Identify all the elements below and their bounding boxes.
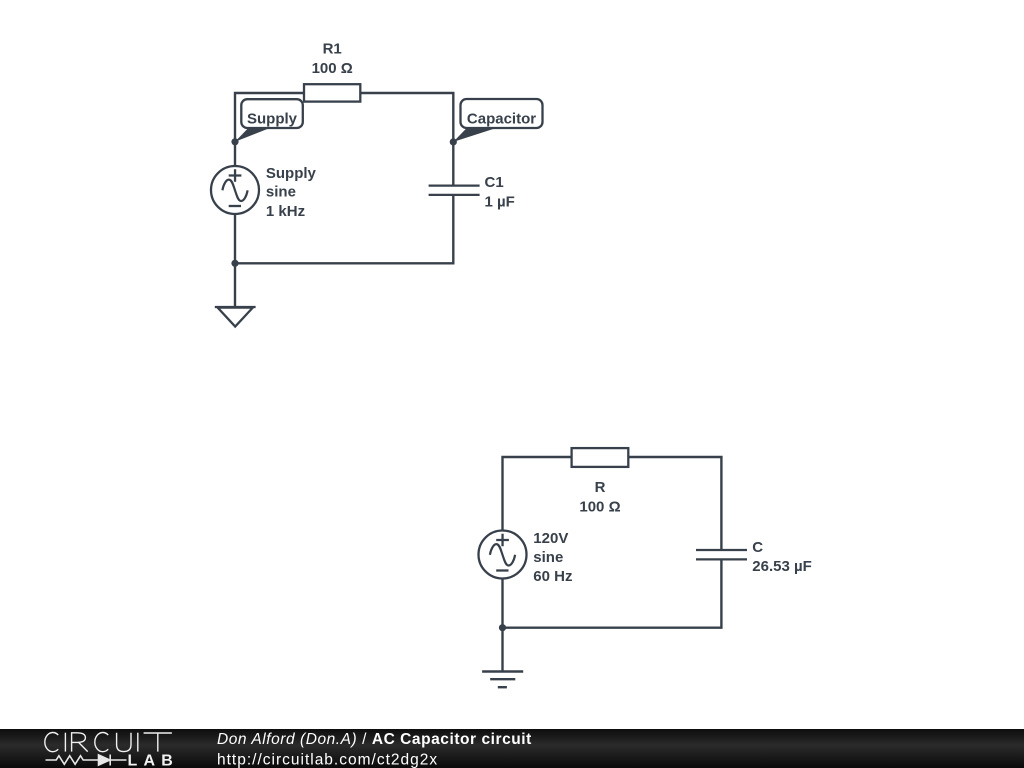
svg-text:1 kHz: 1 kHz [266,203,305,220]
node dot Capacitor [450,138,457,145]
svg-text:Supply: Supply [266,165,317,182]
ground (circuit 2, earth style) [482,672,523,688]
svg-text:Supply: Supply [247,110,298,127]
wire left-top-right run (circuit 2) [503,457,722,549]
svg-text:C: C [752,539,763,556]
node dot Supply [231,138,238,145]
resistor R [572,448,629,515]
footer bar [0,729,1024,768]
voltage source V1 (Supply sine 1 kHz) [211,165,317,220]
wire right-bottom run (circuit 2) [501,561,721,628]
wire source-to-ground vertical (circuit 2) [501,579,503,672]
node label Capacitor (flag) [453,99,542,142]
svg-text:100 Ω: 100 Ω [312,60,353,77]
svg-text:Don Alford (Don.A) / AC Capaci: Don Alford (Don.A) / AC Capacitor circui… [217,731,532,748]
svg-text:R1: R1 [323,40,342,57]
svg-text:120V: 120V [533,530,568,547]
svg-text:60 Hz: 60 Hz [533,568,572,585]
logo resistor-diode symbol [46,755,127,766]
ground (circuit 1, triangle style) [215,307,256,327]
svg-text:LAB: LAB [128,752,179,768]
voltage source V2 (120V sine 60 Hz) [479,530,573,585]
svg-text:100 Ω: 100 Ω [579,498,620,515]
svg-text:Capacitor: Capacitor [467,110,536,127]
svg-text:sine: sine [533,549,563,566]
svg-text:http://circuitlab.com/ct2dg2x: http://circuitlab.com/ct2dg2x [217,751,438,768]
node dot junction bottom (circuit 1) [231,260,238,267]
svg-text:26.53 µF: 26.53 µF [752,558,812,575]
resistor R1 [304,40,360,101]
wire supply-to-ground vertical (circuit 1) [234,214,236,307]
svg-text:1 µF: 1 µF [485,193,515,210]
wire right-bottom run (circuit 1) [234,196,453,263]
svg-text:sine: sine [266,184,296,201]
capacitor C1 [429,174,515,210]
wire left-top-right run (circuit 1) [235,93,453,185]
svg-text:C1: C1 [485,174,504,191]
svg-text:R: R [595,479,606,496]
node dot junction bottom (circuit 2) [499,624,506,631]
logo CIRCUIT (hairline letterforms) [45,733,172,752]
capacitor C [696,539,812,575]
node label Supply (flag) [235,99,303,142]
